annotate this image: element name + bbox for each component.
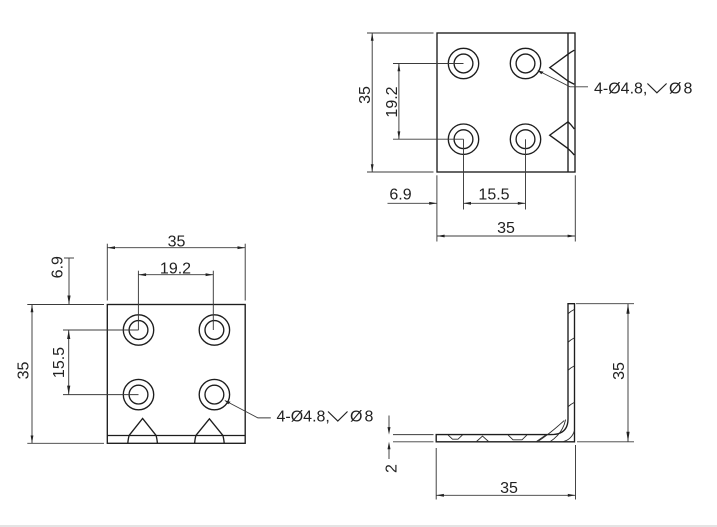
svg-text:6.9: 6.9 bbox=[49, 256, 66, 278]
svg-text:4-Ø4.8,: 4-Ø4.8, bbox=[594, 81, 647, 98]
svg-text:35: 35 bbox=[168, 234, 186, 251]
svg-text:15.5: 15.5 bbox=[478, 186, 509, 203]
svg-text:6.9: 6.9 bbox=[389, 186, 411, 203]
svg-text:35: 35 bbox=[357, 86, 374, 104]
svg-text:Ø8: Ø8 bbox=[350, 409, 375, 426]
svg-text:4-Ø4.8,: 4-Ø4.8, bbox=[277, 409, 330, 426]
svg-text:19.2: 19.2 bbox=[160, 260, 191, 277]
svg-text:2: 2 bbox=[383, 464, 400, 473]
svg-text:35: 35 bbox=[500, 480, 518, 497]
svg-text:35: 35 bbox=[15, 362, 32, 380]
svg-text:15.5: 15.5 bbox=[51, 347, 68, 378]
svg-text:Ø8: Ø8 bbox=[669, 81, 694, 98]
svg-text:35: 35 bbox=[611, 362, 628, 380]
svg-text:19.2: 19.2 bbox=[384, 86, 401, 117]
svg-text:35: 35 bbox=[497, 220, 515, 237]
